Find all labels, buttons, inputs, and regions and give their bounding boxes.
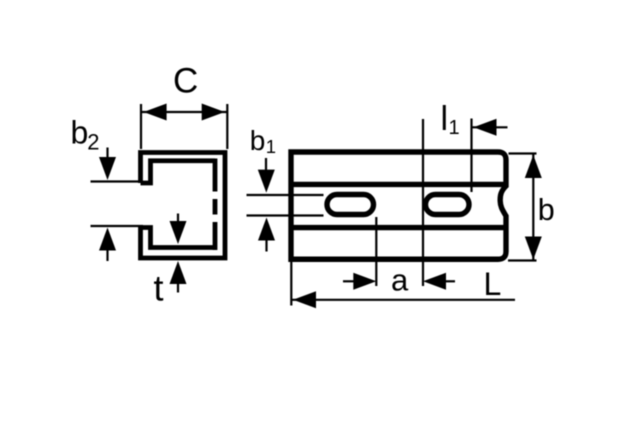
dimension t: upper arrow	[177, 214, 179, 228]
dimension b1: upper arrow	[265, 158, 267, 177]
svg-text:L: L	[484, 266, 502, 302]
dimension b1: lower extension line	[247, 214, 324, 216]
dimension C: extension lines	[141, 104, 227, 149]
dimension b2: lower arrow	[106, 244, 108, 261]
extension line: slot1 right edge down	[375, 217, 377, 286]
side view upper fold line	[293, 182, 504, 187]
svg-text:C: C	[173, 62, 198, 101]
dimension a: left arrow	[343, 280, 357, 282]
channel section inner back-wall segments (with slot gaps)	[213, 159, 218, 251]
extension line: slot2 left edge full	[422, 119, 424, 286]
svg-text:1: 1	[449, 117, 460, 139]
dimension b1: upper extension line	[247, 194, 324, 196]
dimension b1: lower arrow	[265, 236, 267, 252]
slot hole 1	[327, 195, 374, 215]
dimension b2: upper extension line	[91, 180, 144, 182]
svg-text:b: b	[71, 115, 89, 151]
svg-text:a: a	[391, 262, 409, 297]
channel section main contour (outer + inner + lip end faces)	[141, 153, 226, 259]
svg-text:1: 1	[266, 136, 276, 157]
dimension t: lower arrow	[177, 278, 179, 293]
dimension a: right arrow	[443, 280, 455, 282]
svg-text:l: l	[441, 100, 449, 138]
dimension L: dimension line with left arrow	[291, 299, 515, 301]
dimension b2: lower extension line	[91, 225, 144, 227]
dimension C: dimension line with two arrows	[141, 111, 227, 113]
dimension b: dimension line with two arrows	[532, 154, 534, 262]
svg-text:2: 2	[87, 129, 99, 154]
dimension l1: arrow pointing left	[472, 126, 508, 128]
slot hole 2	[426, 195, 470, 215]
dimension b2: upper arrow	[106, 148, 108, 165]
extension line: view left edge down	[290, 262, 292, 306]
side view lower fold line	[293, 225, 504, 230]
dimension b: extension lines	[508, 154, 537, 261]
svg-text:b: b	[250, 125, 266, 156]
extension line: slot2 right edge up	[470, 119, 472, 193]
svg-text:t: t	[154, 268, 164, 309]
side view outline with broken-edge wave on right	[291, 152, 506, 259]
svg-text:b: b	[538, 193, 555, 227]
